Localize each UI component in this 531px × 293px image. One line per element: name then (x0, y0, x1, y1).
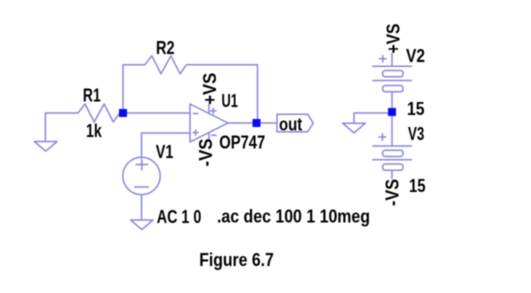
wire V1 to ground (141, 195, 143, 220)
resistor R1 (78, 104, 123, 122)
resistor R2 (145, 56, 187, 74)
svg-text:+VS: +VS (383, 24, 403, 54)
svg-text:15: 15 (409, 176, 426, 196)
battery V3 (373, 145, 412, 147)
wire op-amp output to out port (228, 122, 278, 124)
svg-text:.ac dec 100 1 10meg: .ac dec 100 1 10meg (217, 207, 370, 227)
svg-text:V3: V3 (408, 124, 424, 144)
svg-text:V2: V2 (406, 46, 425, 66)
node junction supply mid (388, 108, 396, 116)
node junction output (253, 119, 261, 127)
svg-text:Figure 6.7: Figure 6.7 (199, 250, 274, 270)
out port flag (277, 114, 313, 132)
wire supply node to battery V3 (391, 116, 393, 146)
voltage source V1 circle (123, 157, 160, 194)
svg-text:1k: 1k (86, 121, 103, 141)
wire V3 to -VS (391, 170, 393, 178)
V1 minus marker (135, 186, 149, 188)
op-amp V+ marker (211, 110, 216, 112)
svg-text:-VS: -VS (196, 139, 216, 167)
wire node up to R2 (123, 65, 145, 113)
op-amp non-inverting input marker (193, 132, 198, 134)
svg-text:R2: R2 (156, 38, 175, 58)
op-amp V+ power stub (208, 104, 210, 114)
battery V3 plus marker (379, 136, 386, 138)
op-amp V- marker (212, 134, 217, 136)
op-amp V- power stub (208, 133, 210, 142)
wire right ground to supply node (354, 113, 388, 123)
ground left (34, 142, 57, 152)
ground right (343, 123, 366, 133)
svg-text:15: 15 (407, 99, 425, 119)
svg-text:V1: V1 (156, 142, 174, 162)
op-amp U1 triangle (190, 104, 228, 142)
wire op-amp + input to V1 (142, 133, 191, 158)
wire R1 node to op-amp inverting input (123, 112, 190, 114)
wire V2 to supply node (391, 92, 393, 108)
ground under V1 (131, 220, 153, 230)
node junction R1/R2/op-amp (119, 109, 127, 117)
svg-text:-VS: -VS (383, 179, 403, 206)
svg-text:out: out (279, 115, 302, 135)
V1 plus marker (136, 164, 148, 166)
battery V2 plus marker (380, 58, 387, 60)
svg-text:+VS: +VS (200, 73, 220, 105)
svg-text:U1: U1 (222, 91, 238, 111)
wire +VS to battery V2 (391, 54, 393, 67)
svg-text:R1: R1 (83, 86, 101, 106)
svg-text:AC 1 0: AC 1 0 (157, 207, 202, 227)
svg-text:OP747: OP747 (219, 132, 265, 152)
op-amp inverting input marker (193, 113, 198, 115)
wire R2 to output node (186, 65, 257, 123)
battery V2 (373, 65, 412, 67)
wire ground to R1 (45, 113, 78, 142)
